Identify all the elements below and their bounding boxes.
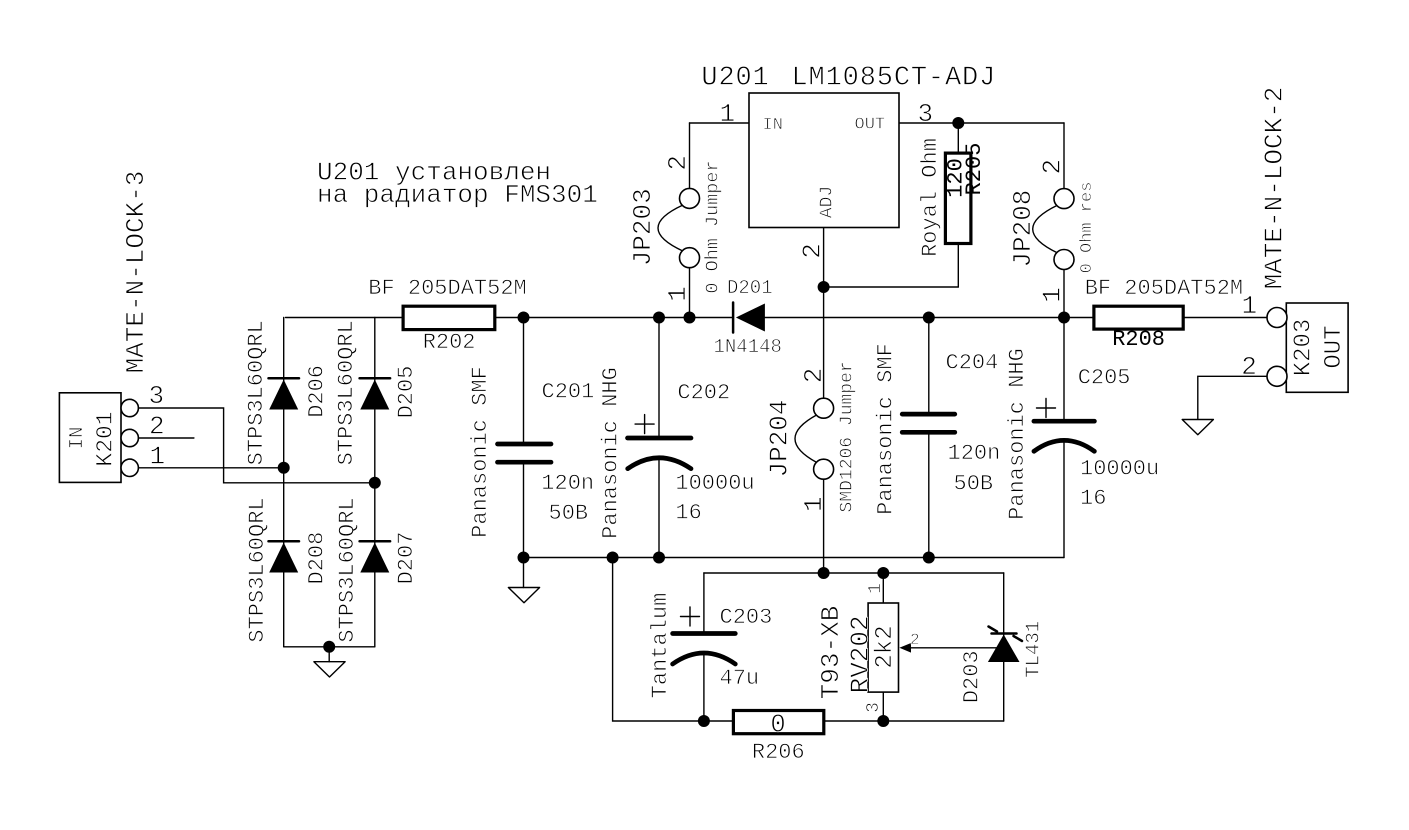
svg-text:K203: K203 (1291, 319, 1318, 377)
svg-text:D206: D206 (305, 365, 330, 418)
svg-text:R202: R202 (423, 330, 476, 355)
svg-text:R206: R206 (752, 740, 805, 765)
svg-text:STPS3L60QRL: STPS3L60QRL (334, 320, 359, 465)
svg-text:0: 0 (770, 711, 785, 740)
svg-text:120n: 120n (948, 441, 1001, 466)
svg-text:47u: 47u (720, 666, 760, 691)
svg-text:120n: 120n (541, 471, 594, 496)
svg-text:D207: D207 (394, 532, 419, 585)
svg-text:на радиатор FMS301: на радиатор FMS301 (317, 180, 598, 210)
svg-text:16: 16 (1080, 486, 1106, 511)
svg-text:R205: R205 (962, 143, 987, 196)
svg-text:MATE-N-LOCK-3: MATE-N-LOCK-3 (121, 171, 151, 374)
svg-text:16: 16 (675, 501, 701, 526)
svg-text:JP208: JP208 (1008, 190, 1038, 268)
svg-text:U201: U201 (701, 64, 769, 94)
svg-text:C203: C203 (720, 605, 773, 630)
svg-text:3: 3 (864, 702, 884, 713)
svg-text:D203: D203 (960, 650, 985, 703)
svg-text:50B: 50B (549, 501, 589, 526)
svg-text:BF 205DAT52M: BF 205DAT52M (368, 276, 526, 301)
svg-text:R208: R208 (1112, 327, 1165, 352)
svg-text:C204: C204 (946, 351, 999, 376)
svg-text:BF 205DAT52M: BF 205DAT52M (1085, 276, 1243, 301)
svg-text:C205: C205 (1078, 365, 1131, 390)
svg-text:C201: C201 (542, 380, 595, 405)
svg-text:D201: D201 (727, 277, 773, 299)
svg-text:2: 2 (910, 631, 920, 649)
svg-text:D205: D205 (394, 366, 419, 419)
svg-text:2: 2 (799, 368, 829, 384)
svg-text:3: 3 (918, 99, 934, 129)
svg-text:ADJ: ADJ (818, 186, 838, 218)
svg-text:OUT: OUT (855, 115, 886, 134)
svg-text:0 Ohm Jumper: 0 Ohm Jumper (703, 160, 724, 293)
svg-text:Royal Ohm: Royal Ohm (918, 138, 943, 257)
svg-text:D208: D208 (305, 532, 330, 585)
svg-text:2: 2 (1038, 159, 1068, 175)
svg-text:Panasonic NHG: Panasonic NHG (1005, 348, 1030, 520)
svg-text:1: 1 (1242, 291, 1258, 321)
svg-text:TL431: TL431 (1023, 621, 1045, 678)
svg-text:Panasonic SMF: Panasonic SMF (468, 366, 493, 538)
svg-text:IN: IN (763, 116, 783, 135)
svg-text:3: 3 (149, 381, 165, 411)
svg-text:1N4148: 1N4148 (714, 336, 782, 358)
svg-text:Panasonic NHG: Panasonic NHG (599, 367, 624, 539)
svg-text:10000u: 10000u (675, 471, 754, 496)
svg-text:1: 1 (720, 99, 736, 129)
svg-text:Tantalum: Tantalum (648, 593, 673, 699)
svg-text:IN: IN (66, 427, 88, 450)
svg-text:1: 1 (866, 583, 886, 594)
svg-text:C202: C202 (677, 381, 730, 406)
svg-text:2: 2 (663, 155, 693, 171)
svg-text:10000u: 10000u (1080, 457, 1159, 482)
svg-text:LM1085CT-ADJ: LM1085CT-ADJ (792, 64, 997, 94)
svg-text:2: 2 (149, 412, 165, 442)
svg-text:STPS3L60QRL: STPS3L60QRL (245, 497, 270, 642)
svg-text:1: 1 (663, 286, 693, 302)
svg-text:SMD1206 Jumper: SMD1206 Jumper (838, 361, 858, 512)
svg-text:JP204: JP204 (765, 399, 795, 477)
svg-text:JP203: JP203 (628, 188, 658, 266)
svg-text:1: 1 (799, 496, 829, 512)
svg-text:STPS3L60QRL: STPS3L60QRL (335, 497, 360, 642)
svg-text:OUT: OUT (1321, 325, 1348, 368)
svg-text:2k2: 2k2 (872, 625, 899, 668)
svg-text:T93-XB: T93-XB (816, 606, 846, 700)
svg-text:2: 2 (1241, 352, 1257, 382)
svg-text:K201: K201 (93, 411, 119, 466)
svg-text:1: 1 (1038, 287, 1068, 303)
svg-text:STPS3L60QRL: STPS3L60QRL (244, 320, 269, 465)
svg-text:2: 2 (798, 243, 828, 259)
svg-text:50B: 50B (954, 472, 994, 497)
svg-text:0 Ohm res: 0 Ohm res (1078, 182, 1097, 274)
svg-text:1: 1 (150, 442, 166, 472)
svg-text:Panasonic SMF: Panasonic SMF (874, 343, 899, 515)
svg-text:MATE-N-LOCK-2: MATE-N-LOCK-2 (1260, 87, 1290, 290)
